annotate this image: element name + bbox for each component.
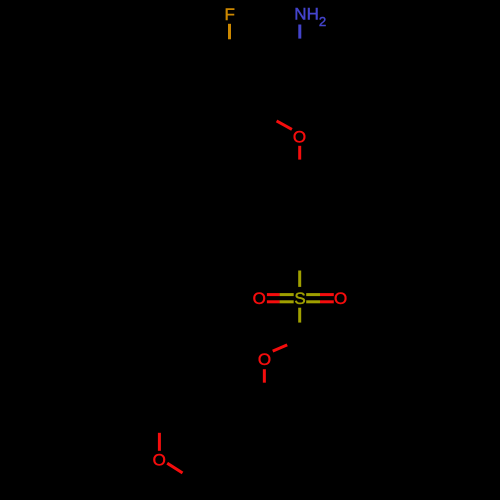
ring A (benzene, carbon bonds black/invisible) — [193, 53, 266, 137]
double bond S=O2 top line (olive part) — [280, 293, 294, 296]
svg-text:O: O — [334, 289, 347, 308]
svg-text:F: F — [225, 5, 235, 24]
bond O1-ringB (oxygen half, red vertical) — [298, 146, 301, 160]
svg-text:S: S — [294, 289, 305, 308]
bond ringB-S (sulfur half, olive vertical) — [298, 271, 301, 287]
double bond S=O3 bottom line (olive part) — [306, 300, 320, 303]
double bond S=O2 bottom line (olive part) — [280, 300, 294, 303]
double bond S=O2 bottom line (red part) — [267, 300, 280, 303]
wire: CH2b black half — [263, 383, 266, 401]
svg-text:O: O — [153, 450, 166, 469]
bond ringA-O1 (oxygen half, red diagonal) — [277, 121, 292, 129]
double bond S=O3 top line (olive part) — [306, 293, 320, 296]
bond ringC-O5 (oxygen half, red vertical) — [158, 433, 161, 451]
bond O4-CH2b (oxygen half, red vertical) — [263, 369, 266, 383]
svg-text:O: O — [253, 289, 266, 308]
wire: CH2-ringA bond (black) — [266, 54, 300, 75]
double bond S=O3 bottom line (red part) — [320, 300, 334, 303]
bond N-CH2 (nitrogen half, blue) — [298, 25, 301, 39]
wire: CH2-O4 black half — [287, 338, 300, 345]
double bond S=O3 top line (red part) — [320, 293, 334, 296]
bond O5-CH3 (oxygen half, red diagonal) — [167, 463, 182, 473]
ring C (benzene, black/invisible) — [155, 401, 264, 485]
bond CH2-O4 (oxygen half, red diagonal) — [273, 345, 288, 351]
wire: CH2-N carbon half (black) — [298, 39, 301, 54]
ring B (benzene, black/invisible) — [263, 173, 336, 257]
bond F-C (fluorine half, amber) — [228, 24, 231, 40]
svg-text:O: O — [258, 350, 271, 369]
wire: CH2 black half — [298, 323, 301, 338]
wire: CH3 black half — [183, 473, 196, 482]
svg-text:O: O — [293, 127, 306, 146]
bond S-CH2 (sulfur half, olive vertical) — [298, 308, 301, 323]
double bond S=O2 top line (red part) — [267, 293, 280, 296]
